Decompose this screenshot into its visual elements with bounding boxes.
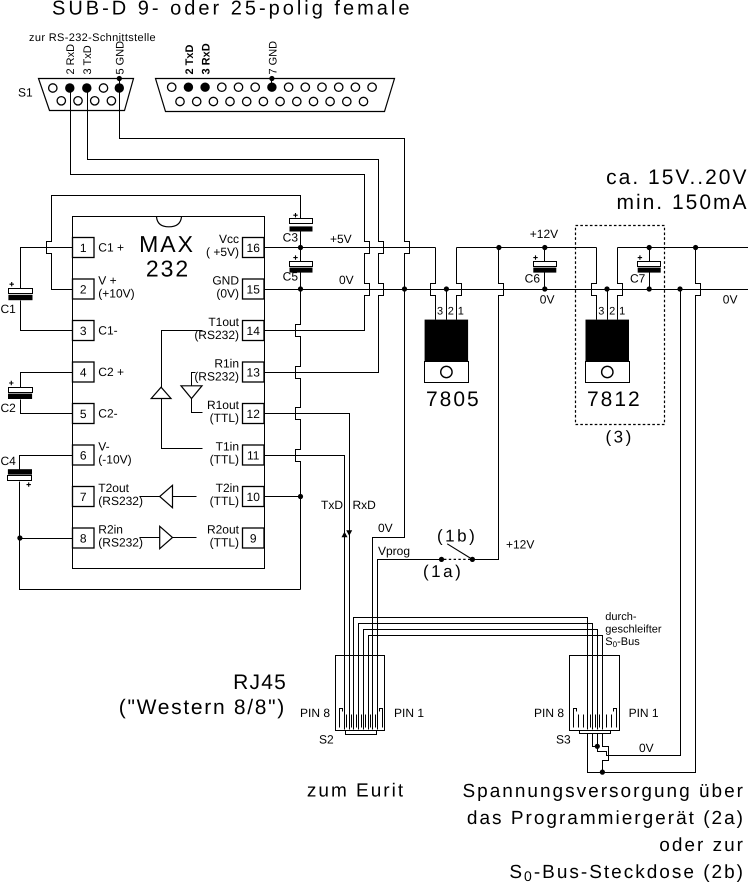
wire: C2 bottom to U1 pin5	[21, 400, 73, 414]
svg-text:S0-Bus: S0-Bus	[605, 636, 640, 649]
svg-text:(0V): (0V)	[216, 287, 239, 301]
svg-text:15: 15	[247, 282, 261, 296]
junction: +12V tap to switch	[496, 245, 501, 250]
wire: C4 bottom down to GND return	[20, 482, 301, 590]
svg-text:MAX: MAX	[139, 231, 195, 257]
S2 cable tongue	[346, 731, 377, 735]
svg-text:1: 1	[619, 306, 625, 318]
junction: C7 on input rail	[647, 245, 652, 250]
C1 plus mark	[10, 282, 14, 286]
junction: C7 on 0V rail	[647, 286, 652, 291]
wire: S0-bus loop line 1 S2 to S3	[354, 618, 588, 730]
U1 internal T2 inverter triangle	[160, 485, 173, 507]
svg-text:T1in: T1in	[216, 440, 239, 454]
S3 cable tongue	[580, 731, 611, 734]
svg-text:C3: C3	[283, 231, 299, 245]
wire: GND net from S1 pin5 down, right, to 0V rail and on to S2 0V	[120, 79, 410, 290]
svg-text:Vprog: Vprog	[378, 544, 410, 558]
svg-text:das Programmiergerät (2a): das Programmiergerät (2a)	[467, 808, 745, 829]
svg-text:T2in: T2in	[216, 481, 239, 495]
U1 pin boxes right 16-9	[243, 238, 265, 549]
svg-text:3: 3	[80, 324, 87, 338]
svg-text:Vcc: Vcc	[219, 232, 239, 246]
U1 pin boxes left 1-8	[73, 238, 95, 549]
svg-text:S3: S3	[556, 733, 571, 747]
svg-text:(1b): (1b)	[437, 526, 477, 545]
svg-text:(RS232): (RS232)	[98, 494, 143, 508]
svg-text:1: 1	[80, 241, 87, 255]
U1 notch	[157, 217, 182, 227]
junction: pin10 at GND return	[298, 494, 303, 499]
svg-text:min. 150mA: min. 150mA	[616, 191, 748, 214]
svg-text:R1out: R1out	[207, 398, 240, 412]
junction: S3 pin3 on bottom line	[600, 770, 605, 775]
svg-text:+12V: +12V	[530, 227, 558, 241]
wire: U1 pin8 stub	[20, 538, 73, 540]
svg-text:(RS232): (RS232)	[194, 370, 239, 384]
svg-text:9: 9	[250, 531, 257, 545]
wire: +12V down to switch contact	[475, 248, 504, 560]
svg-text:13: 13	[247, 365, 261, 379]
connector S1 9-pin shell	[39, 79, 134, 111]
U1 internal R1 inverter triangle	[181, 386, 202, 399]
capacitor C2	[9, 388, 33, 393]
junction: C5 on 0V rail	[298, 286, 303, 291]
svg-text:2: 2	[448, 306, 454, 318]
svg-text:S0-Bus-Steckdose (2b): S0-Bus-Steckdose (2b)	[509, 862, 745, 883]
svg-text:6: 6	[80, 448, 87, 462]
svg-text:PIN 1: PIN 1	[629, 706, 659, 720]
svg-text:5 GND: 5 GND	[115, 41, 127, 75]
svg-text:("Western 8/8"): ("Western 8/8")	[119, 696, 286, 719]
wire: C7 bottom to 0V rail	[649, 273, 651, 290]
junction: pin8 at C4 leg	[17, 535, 22, 540]
svg-text:ca. 15V..20V: ca. 15V..20V	[606, 166, 748, 189]
wire: U1 pin2 V+ up over IC to C3	[47, 196, 301, 290]
svg-text:2: 2	[80, 282, 87, 296]
svg-text:RJ45: RJ45	[233, 671, 287, 694]
svg-text:PIN 8: PIN 8	[534, 706, 564, 720]
U1 internal R2 inverter triangle	[160, 526, 173, 548]
wire: C5 top from +5V rail	[300, 248, 302, 262]
wire: RxD line U1 pin12 to S2	[265, 414, 350, 730]
wire: R1 output to R1out	[192, 399, 203, 413]
wire: 7812 pin2 to 0V rail	[607, 290, 609, 320]
wire: S3 0V staircase to 0V rail	[598, 290, 681, 756]
svg-text:C4: C4	[1, 454, 17, 468]
arrow down on RxD line	[346, 530, 352, 536]
S3 latch hook left	[574, 709, 577, 728]
svg-text:7: 7	[80, 490, 87, 504]
svg-text:(TTL): (TTL)	[210, 494, 239, 508]
wire: U1 pin6 to C4 top	[20, 456, 73, 470]
wire: 7812 pin1 input down with hop	[618, 248, 623, 320]
regulator 7805 body	[425, 320, 469, 362]
svg-text:7812: 7812	[587, 388, 642, 411]
C4 plus mark	[27, 482, 31, 486]
op-amp U1 MAX232 body	[73, 217, 265, 569]
switch (1a)/(1b) contacts	[439, 557, 444, 562]
capacitor C5	[290, 262, 313, 267]
svg-text:(TTL): (TTL)	[210, 536, 239, 550]
wire: C3 bottom to +5V rail	[300, 232, 302, 248]
dashed option box (3)	[576, 226, 665, 425]
wire: 7805 pin1 input down with hop	[457, 248, 462, 320]
junction: S3 0V tie	[595, 744, 600, 749]
junction: 7812 pin2 on 0V rail	[604, 286, 609, 291]
svg-text:0V: 0V	[639, 741, 654, 755]
wire: +12V feed from input rail down to S3 bottom line	[588, 248, 701, 773]
svg-text:Spannungsversorgung über: Spannungsversorgung über	[462, 781, 745, 802]
svg-text:1: 1	[458, 306, 464, 318]
C2 plus mark	[9, 381, 13, 385]
svg-text:geschleifter: geschleifter	[605, 624, 662, 636]
svg-text:S1: S1	[18, 86, 33, 100]
wire: 25-pin pin7 stub to shell	[271, 79, 273, 88]
wire: R2 output right	[173, 537, 197, 539]
S2 contact comb	[347, 715, 376, 728]
svg-text:2 TxD: 2 TxD	[184, 44, 196, 74]
svg-text:3: 3	[437, 306, 443, 318]
svg-text:C6: C6	[525, 272, 541, 286]
svg-text:C5: C5	[283, 270, 299, 284]
junction: +12V feed on input rail	[693, 245, 698, 250]
svg-text:C2-: C2-	[98, 407, 117, 421]
svg-text:3 RxD: 3 RxD	[201, 43, 213, 74]
S2 latch hook right	[380, 709, 383, 728]
svg-text:(1a): (1a)	[423, 562, 463, 581]
25-pin open pins row 1	[168, 83, 377, 91]
capacitor C4 (inverted)	[8, 469, 32, 474]
junction: C6 on +12V rail	[542, 245, 547, 250]
junction: C6 on 0V rail	[542, 286, 547, 291]
25-pin open pins row 2	[176, 97, 368, 105]
wire: U1 pin1 to C1 top	[21, 248, 73, 289]
svg-text:SUB-D 9- oder 25-polig female: SUB-D 9- oder 25-polig female	[52, 0, 412, 20]
svg-text:+12V: +12V	[506, 538, 534, 552]
wire: S0-bus loop line 2	[359, 624, 593, 730]
wire: S3 pin3 stub to bottom line	[603, 734, 609, 773]
svg-text:C2: C2	[1, 401, 17, 415]
wire: +12V rail from 7805 pin1 to 7812 pin3	[457, 247, 597, 249]
svg-text:11: 11	[247, 448, 260, 462]
svg-text:RxD: RxD	[353, 498, 377, 512]
svg-text:14: 14	[247, 324, 261, 338]
wire: C6 bottom to 0V rail	[544, 273, 546, 290]
svg-text:(RS232): (RS232)	[98, 536, 143, 550]
wire: 0V branch down to S2	[373, 290, 405, 730]
S3 latch hook right	[614, 709, 617, 728]
connector S1 25-pin shell	[156, 79, 395, 112]
junction: S3 0V on rail	[677, 286, 682, 291]
svg-text:(+10V): (+10V)	[98, 287, 134, 301]
junction: 25-pin pin7 to shell	[269, 76, 274, 81]
S1 pin 5 GND (filled)	[115, 83, 124, 92]
U1 internal T1 inverter triangle	[151, 387, 171, 398]
svg-text:(TTL): (TTL)	[210, 453, 239, 467]
svg-text:(TTL): (TTL)	[210, 411, 239, 425]
svg-text:0V: 0V	[339, 273, 354, 287]
svg-text:(-10V): (-10V)	[98, 453, 131, 467]
junction: GND at 0V rail	[402, 286, 407, 291]
svg-text:TxD: TxD	[321, 498, 343, 512]
wire: +5V rail from U1 pin16 to 7805 pin3	[265, 247, 436, 249]
S1 open pins row 2	[57, 97, 116, 105]
svg-text:V +: V +	[98, 274, 116, 288]
svg-text:7805: 7805	[426, 388, 481, 411]
svg-text:0V: 0V	[378, 521, 393, 535]
svg-text:0V: 0V	[540, 293, 555, 307]
svg-text:3: 3	[598, 306, 604, 318]
C5 plus mark	[293, 255, 297, 259]
wire: 7812 pin3 output down with hop	[592, 248, 597, 320]
wire: TxD net from S1 pin3 to MAX232 pin 13	[88, 89, 384, 373]
S1 pin 2 RxD (filled)	[65, 83, 74, 92]
svg-text:R2out: R2out	[207, 523, 240, 537]
wire: C7 top to input rail	[649, 248, 651, 262]
svg-text:C1: C1	[1, 302, 17, 316]
svg-text:5: 5	[80, 407, 87, 421]
capacitor C3	[290, 219, 313, 224]
svg-text:16: 16	[247, 241, 261, 255]
svg-text:PIN 1: PIN 1	[394, 706, 424, 720]
wire: 0V rail from U1 pin15 to right edge	[265, 289, 748, 291]
wire: C6 top to +12V rail	[544, 248, 546, 262]
U1 left pin labels	[98, 241, 143, 550]
junction: C3/pin16 on +5V rail	[298, 245, 303, 250]
svg-text:T2out: T2out	[98, 481, 129, 495]
svg-text:zur RS-232-Schnittstelle: zur RS-232-Schnittstelle	[29, 32, 156, 44]
wire: 7805 pin3 output down with hop	[431, 248, 436, 320]
U1 right pin labels	[194, 232, 239, 550]
svg-text:zum Eurit: zum Eurit	[307, 781, 405, 802]
svg-text:2 RxD: 2 RxD	[65, 44, 77, 75]
wire: C5 bottom to 0V rail	[300, 273, 302, 290]
25-pin pin 2 TxD (filled)	[184, 83, 193, 92]
wire: U1 pin10 stub	[265, 496, 301, 498]
svg-text:232: 232	[146, 256, 190, 282]
svg-text:PIN 8: PIN 8	[300, 706, 330, 720]
wire: S3 pins 4+5 to 0V	[593, 734, 598, 747]
25-pin pin 3 RxD (filled)	[200, 83, 209, 92]
S3 contact comb	[579, 715, 612, 728]
svg-text:( +5V): ( +5V)	[206, 245, 239, 259]
svg-text:7 GND: 7 GND	[267, 41, 279, 75]
wire: Vprog from switch left contact to S2	[378, 560, 440, 730]
junction: S1 pin5 to shell	[117, 76, 122, 81]
svg-text:T1out: T1out	[208, 315, 239, 329]
wire: 7805 pin2 to 0V rail	[446, 290, 448, 320]
svg-text:oder zur: oder zur	[659, 835, 745, 856]
arrow up on TxD line	[342, 532, 348, 538]
wire: T2 output left	[140, 496, 160, 498]
svg-text:GND: GND	[212, 274, 239, 288]
svg-text:3 TxD: 3 TxD	[82, 45, 94, 74]
C3 plus mark	[293, 213, 297, 217]
wire: TxD line U1 pin11 to S2	[265, 456, 345, 730]
svg-text:R1in: R1in	[214, 357, 239, 371]
wire: U1 pin4 to C2 top	[21, 373, 73, 388]
S1 pin 3 TxD (filled)	[82, 83, 91, 92]
svg-text:10: 10	[247, 490, 261, 504]
25-pin pin 7 GND (filled)	[267, 83, 276, 92]
wire: input rail from 7812 pin1 to right edge	[618, 247, 748, 249]
junction: 7805 pin2 on 0V rail	[444, 286, 449, 291]
svg-text:12: 12	[247, 407, 261, 421]
capacitor C7	[638, 262, 661, 267]
regulator 7812 body	[586, 320, 630, 362]
wire: S0-bus loop line 4	[369, 636, 603, 730]
C6 plus mark	[533, 255, 537, 259]
capacitor C6	[534, 262, 557, 267]
svg-text:durch-: durch-	[605, 611, 637, 623]
svg-text:(3): (3)	[606, 427, 634, 446]
svg-text:V-: V-	[98, 440, 109, 454]
S1 open pins row 1	[49, 84, 108, 92]
wire: C1 bottom to U1 pin3	[21, 301, 73, 331]
wire: T1 input from T1in	[162, 399, 203, 449]
switch dashed gap	[444, 558, 470, 560]
wire: R1 input from R1in	[192, 373, 196, 386]
svg-text:C1 +: C1 +	[98, 241, 124, 255]
wire: S0-bus loop line 3	[364, 630, 598, 730]
svg-text:C1-: C1-	[98, 324, 117, 338]
svg-text:+5V: +5V	[330, 232, 352, 246]
wire: RxD net from S1 pin2 to MAX232 pin 14	[71, 89, 370, 331]
svg-text:8: 8	[80, 531, 87, 545]
wire: T1 output to T1out	[162, 331, 203, 388]
wire: R2 input left	[140, 537, 160, 539]
C7 plus mark	[638, 255, 642, 259]
S2 latch hook left	[340, 709, 343, 728]
svg-text:2: 2	[609, 306, 615, 318]
capacitor C1	[9, 289, 33, 294]
svg-text:R2in: R2in	[98, 523, 123, 537]
svg-text:S2: S2	[319, 733, 334, 747]
wire: GND return up to 0V rail with hops	[296, 290, 301, 590]
U1 pin numbers 16-9	[247, 241, 261, 546]
switch lever	[447, 544, 472, 560]
connector S2 body	[336, 656, 385, 731]
svg-text:4: 4	[80, 365, 87, 379]
U1 pin numbers 1-8	[80, 241, 87, 546]
svg-text:C7: C7	[630, 272, 646, 286]
svg-text:0V: 0V	[723, 293, 738, 307]
wire: T2 input right	[173, 496, 197, 498]
connector S3 body	[570, 656, 620, 731]
svg-text:C2 +: C2 +	[98, 365, 124, 379]
